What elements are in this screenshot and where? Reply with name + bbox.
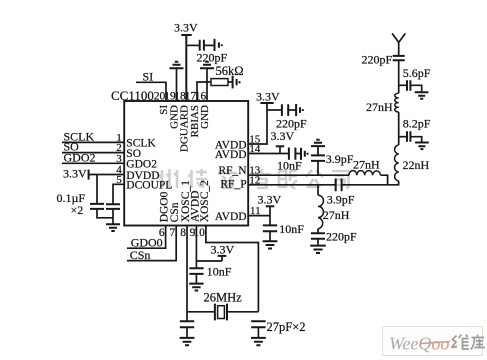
ground (pin 9 10nF) xyxy=(189,284,203,291)
wire cap to ground xyxy=(317,239,319,245)
ground (rotated, pin 15) xyxy=(296,104,303,116)
wire RF_P shunt branch xyxy=(317,185,319,195)
pin 20 SI : number, name, wire xyxy=(154,90,170,114)
wire 5.6pF branch xyxy=(399,84,407,86)
svg-text:DCOUPL: DCOUPL xyxy=(126,180,172,192)
pin 7 CSn : number, name xyxy=(169,202,181,239)
svg-text:3.3V: 3.3V xyxy=(256,89,280,103)
svg-text:10nF: 10nF xyxy=(207,265,232,279)
ground (pin 11) xyxy=(263,241,278,248)
svg-text:3.3V: 3.3V xyxy=(63,167,87,181)
svg-text:22nH: 22nH xyxy=(403,158,430,172)
svg-text:220pF: 220pF xyxy=(326,230,357,244)
svg-text:3.9pF: 3.9pF xyxy=(327,193,355,207)
pin 14 AVDD : number, name xyxy=(215,143,261,161)
svg-text:10: 10 xyxy=(193,227,205,239)
capacitor 10nF (pin 11) xyxy=(263,222,305,236)
capacitor 8.2pF xyxy=(403,117,431,142)
wire pin 8 down to crystal xyxy=(186,226,188,312)
node GDO0 wire xyxy=(127,226,166,250)
svg-text:RF_P: RF_P xyxy=(220,179,246,191)
svg-text:27nH: 27nH xyxy=(323,208,350,222)
capacitor 3.9pF shunt (RF_N) xyxy=(311,152,354,166)
pin 5 DCOUPL : number, name xyxy=(116,174,172,192)
pin 3 GDO2 : number, name xyxy=(116,153,157,171)
svg-text:10nF: 10nF xyxy=(279,222,304,236)
wire antenna chain xyxy=(398,60,400,93)
power 3.3V flag (pin 11) xyxy=(258,192,282,215)
wire 3.3V rail to C top xyxy=(186,44,199,46)
IC label CC1100 xyxy=(111,88,154,103)
wire RF_P xyxy=(248,184,335,186)
wire pin 19 to ground xyxy=(176,68,178,101)
svg-text:7: 7 xyxy=(169,227,175,239)
wire pin 16 to ground xyxy=(206,68,208,101)
svg-text:×2: ×2 xyxy=(71,203,84,217)
wire cap to RF_N line xyxy=(317,161,319,175)
capacitor 220pF (RF_P shunt) xyxy=(311,230,357,244)
ground (27pF right) xyxy=(251,338,266,345)
svg-text:3.3V: 3.3V xyxy=(258,192,282,206)
svg-text:220pF: 220pF xyxy=(362,53,393,67)
pin 19 GND : number, name xyxy=(164,90,180,129)
pin 9 AVDD : number, name xyxy=(189,191,201,239)
wire crystal right xyxy=(227,311,258,313)
svg-text:220pF: 220pF xyxy=(197,50,228,64)
wire C to ground xyxy=(204,44,214,46)
svg-text:CSn: CSn xyxy=(130,248,151,262)
svg-text:27nH: 27nH xyxy=(366,100,393,114)
ground (inverted, RF_N shunt) xyxy=(311,140,325,146)
wire ground to cap xyxy=(317,146,319,155)
capacitor 220pF (antenna series) xyxy=(362,53,405,67)
pin 18 DGUARD : number, name xyxy=(174,90,190,152)
wire pin 11 xyxy=(248,215,270,217)
svg-text:RF_N: RF_N xyxy=(218,165,247,177)
capacitor C2 0.1uF xyxy=(106,204,120,209)
capacitor 220pF (top decoupling) xyxy=(197,40,228,65)
wire resistor to ground xyxy=(228,81,232,83)
wire 27nH to junction xyxy=(381,175,388,185)
svg-text:3.3V: 3.3V xyxy=(174,21,198,35)
svg-text:CC1100: CC1100 xyxy=(111,88,154,103)
power 3.3V flag (pin 14) xyxy=(271,129,295,153)
wire cap to junction and riser to 22nH xyxy=(342,181,399,185)
ground (RF_P shunt) xyxy=(310,246,326,253)
pin 6 DGO0 : number, name xyxy=(159,191,171,238)
capacitor 3.9pF series (RF_P) xyxy=(327,179,355,207)
ground (0.1uF pair) xyxy=(106,224,120,231)
svg-text:GND: GND xyxy=(199,105,211,129)
pin 17 RBIAS : number, name xyxy=(185,90,201,137)
wire C to ground xyxy=(195,274,197,283)
pin 2 SO : number, name xyxy=(116,142,141,160)
wire pin 11 to cap xyxy=(269,216,271,226)
inductor 27nH (antenna) xyxy=(366,93,399,114)
wire RF_N xyxy=(248,174,349,176)
node GDO2 label and wire xyxy=(62,150,124,164)
crystal 26MHz xyxy=(204,291,243,321)
wire cap to ground xyxy=(411,137,422,143)
pin 11 AVDD : number, name xyxy=(215,205,261,223)
wire pin 9 down xyxy=(195,226,197,269)
wire crystal left xyxy=(187,311,215,313)
ground (inverted, above pin 19) xyxy=(170,62,184,68)
svg-text:3.3V: 3.3V xyxy=(211,243,235,257)
svg-text:8.2pF: 8.2pF xyxy=(403,117,431,131)
svg-text:GDO2: GDO2 xyxy=(64,150,96,164)
node SCLK label and wire xyxy=(62,129,124,143)
wire cap to ground xyxy=(269,231,271,240)
svg-text:AVDD: AVDD xyxy=(215,149,247,161)
wire pin 14 xyxy=(248,153,288,155)
node SO label and wire xyxy=(62,140,124,154)
ground (27pF left) xyxy=(180,338,195,345)
wire inductor to 220pF xyxy=(317,229,319,233)
pin 12 RF_P : number, name xyxy=(220,174,260,190)
wire to ground xyxy=(288,109,295,111)
power 3.3V flag (top, to pin 18) xyxy=(174,21,198,102)
svg-text:16: 16 xyxy=(195,90,207,102)
wire pin 17 to resistor xyxy=(197,82,211,101)
svg-text:56kΩ: 56kΩ xyxy=(216,64,244,78)
ground (rotated, top 220pF) xyxy=(215,39,222,51)
ground (8.2pF) xyxy=(415,143,429,150)
pin 8 XOSC_1 : number, name xyxy=(180,180,192,239)
IC U1 CC1100 body xyxy=(124,101,248,226)
power 3.3V flag (left, DVDD) and wire xyxy=(63,167,124,181)
node CSn wire xyxy=(127,226,176,262)
wire cap to ground xyxy=(411,85,422,92)
ground (inverted, above pin 16) xyxy=(200,62,214,68)
svg-text:27pF×2: 27pF×2 xyxy=(267,320,306,334)
wire to ground xyxy=(296,153,301,155)
svg-text:3.9pF: 3.9pF xyxy=(326,152,354,166)
ground (5.6pF) xyxy=(415,92,429,98)
capacitor 27pF right xyxy=(251,320,305,338)
inductor 27nH (RF_N series) xyxy=(349,158,381,176)
pin 4 DVDD : number, name xyxy=(116,164,159,182)
svg-text:GDO2: GDO2 xyxy=(126,159,157,171)
node SI wire to pin 20 xyxy=(136,70,166,101)
power 3.3V flag (pin 15) xyxy=(248,89,280,144)
svg-text:AVDD: AVDD xyxy=(215,211,247,223)
wire pin 10 to crystal right xyxy=(206,226,259,312)
svg-text:27nH: 27nH xyxy=(353,158,380,172)
wire pin 5 to C2 xyxy=(113,184,124,204)
svg-text:5.6pF: 5.6pF xyxy=(403,66,431,80)
ground (rotated, 56k) xyxy=(233,76,240,89)
wire 3.3V to C1 xyxy=(96,175,98,204)
capacitor 220pF (pin 15) xyxy=(276,104,307,130)
capacitor 5.6pF xyxy=(403,66,431,91)
capacitor 27pF left xyxy=(180,312,194,338)
resistor 56k xyxy=(211,64,244,86)
svg-text:XOSC_2: XOSC_2 xyxy=(199,180,211,222)
ground (rotated, pin 14) xyxy=(301,148,308,160)
svg-text:220pF: 220pF xyxy=(276,116,307,130)
pin 13 RF_N : number, name xyxy=(218,165,260,177)
capacitor 10nF (pin 14) xyxy=(277,148,302,173)
pin 10 XOSC_2 : number, name xyxy=(193,180,211,239)
pin 16 GND : number, name xyxy=(195,90,211,129)
capacitor 10nF (pin 9) xyxy=(189,265,231,279)
wire to 8.2pF branch and 22nH xyxy=(398,112,400,145)
pin 1 SCLK : number, name xyxy=(116,132,156,150)
wire C1 bottom join C2 xyxy=(97,209,113,224)
wire 8.2pF branch xyxy=(399,136,407,138)
svg-text:10nF: 10nF xyxy=(277,158,302,172)
inductor 27nH (RF_P shunt) xyxy=(318,195,350,229)
svg-text:SI: SI xyxy=(143,70,154,84)
inductor 22nH xyxy=(394,145,429,181)
wire to 220pF xyxy=(267,109,282,111)
svg-text:3.3V: 3.3V xyxy=(271,129,295,143)
capacitor C1 0.1uF xyxy=(90,204,104,209)
label 0.1uF x2 xyxy=(57,191,86,217)
pin 15 AVDD : number, name xyxy=(215,134,261,152)
svg-text:26MHz: 26MHz xyxy=(204,291,243,305)
svg-text:8: 8 xyxy=(180,227,186,239)
power 3.3V flag (pin 9) xyxy=(196,243,234,261)
svg-text:WeeQoo: WeeQoo xyxy=(389,334,449,354)
antenna xyxy=(392,33,405,55)
